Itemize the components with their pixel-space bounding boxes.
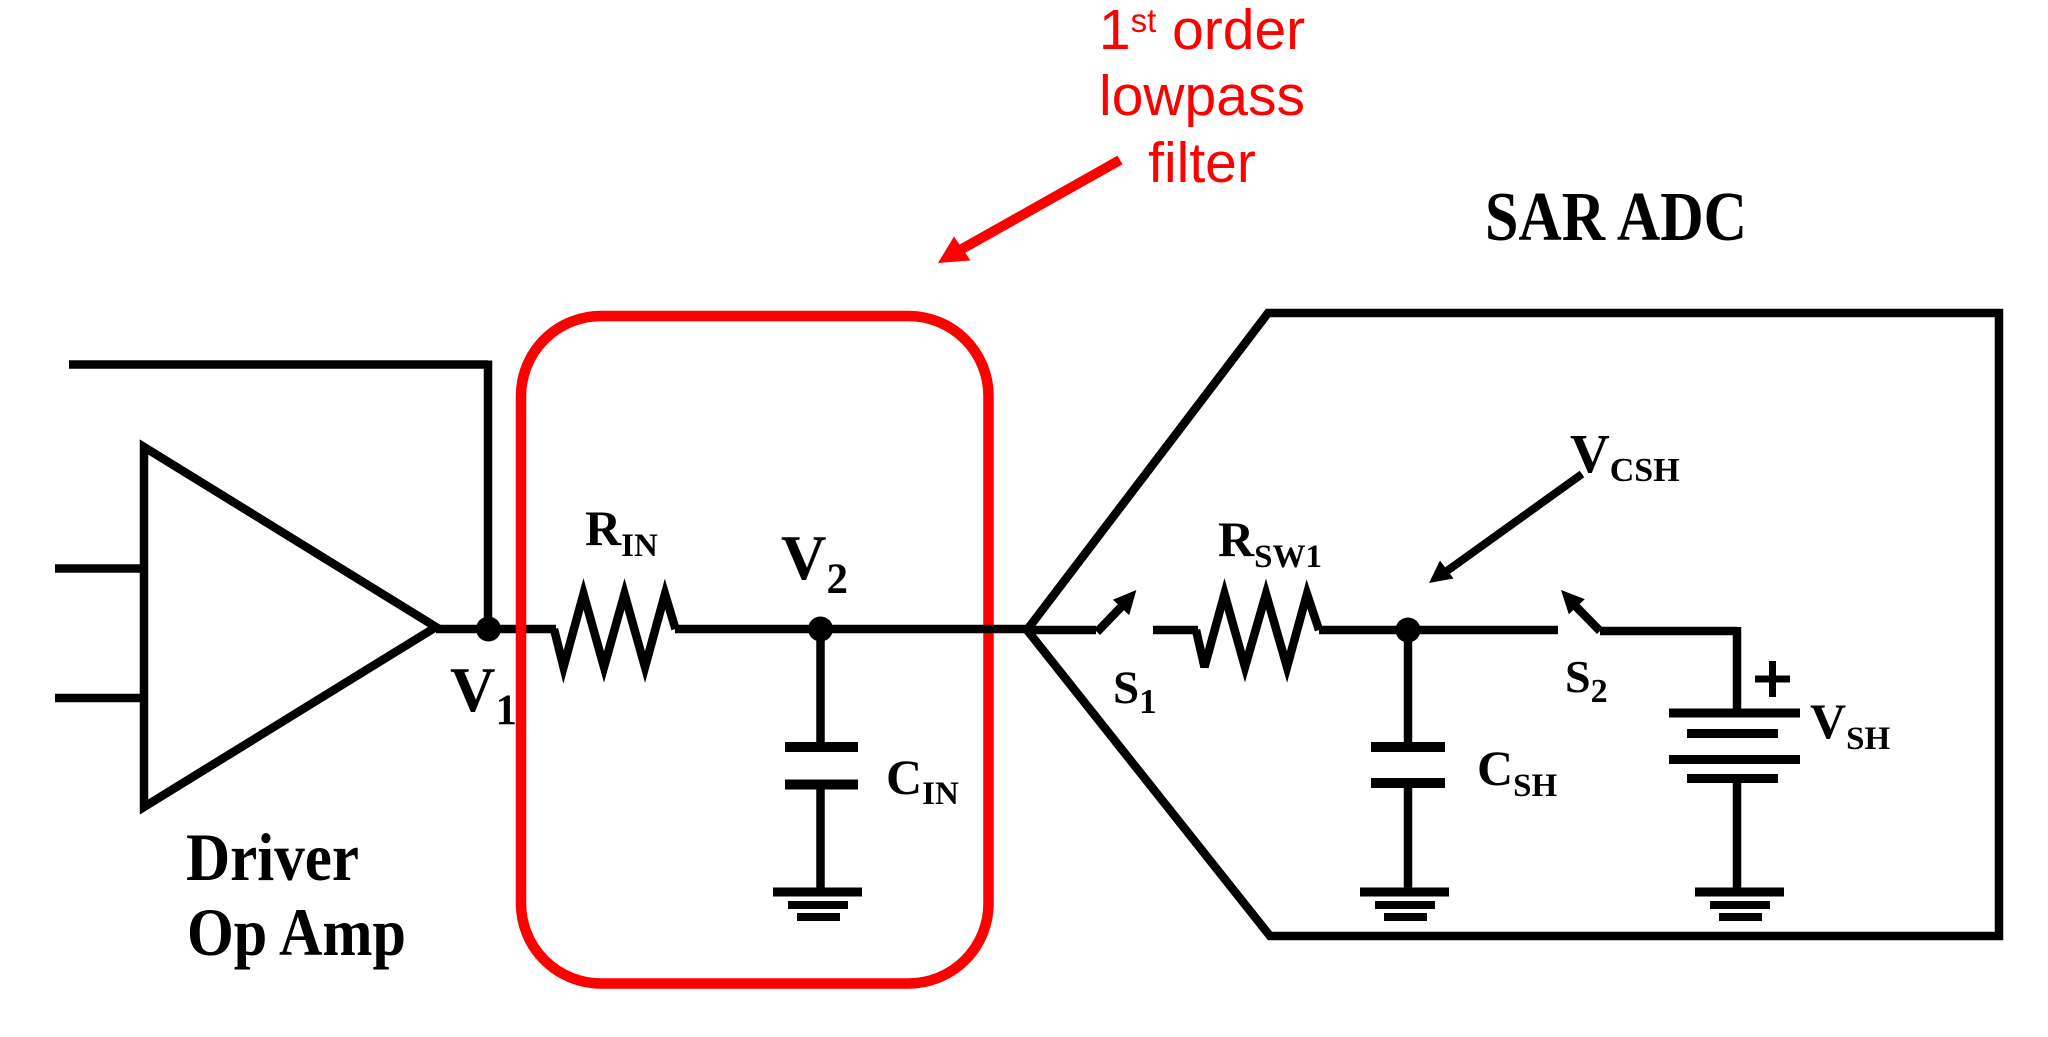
wire op-amp output to resistor RIN (436, 625, 556, 634)
wire S1 to RSW1 (1153, 626, 1198, 635)
capacitor CIN stem (top) (816, 629, 825, 743)
op-amp U1 input stub wire (upper) (55, 564, 144, 573)
red annotation arrow (958, 160, 1121, 252)
battery VSH plus sign (1755, 661, 1790, 697)
svg-text:lowpass: lowpass (1099, 64, 1305, 128)
wire RSW1 to switch S2 (1319, 626, 1558, 635)
battery VSH top lead (1733, 627, 1742, 712)
ground under CIN (773, 888, 862, 897)
wire vertex to switch S1 (1027, 626, 1096, 635)
capacitor CSH plates (1371, 747, 1445, 783)
capacitor CIN plates (785, 747, 858, 785)
capacitor CSH stem (top) (1404, 630, 1413, 744)
resistor RIN zigzag (554, 594, 676, 667)
svg-text:Driver: Driver (186, 819, 359, 895)
resistor RSW1 zigzag (1196, 594, 1319, 667)
svg-text:SAR ADC: SAR ADC (1485, 179, 1747, 256)
red rounded box (lowpass filter) (521, 316, 989, 984)
svg-text:1st order: 1st order (1099, 0, 1305, 62)
svg-text:filter: filter (1148, 131, 1256, 195)
arrow VCSH to node (1446, 474, 1583, 572)
capacitor CSH stem (bottom) (1404, 788, 1413, 892)
wire S2 to battery VSH (1600, 627, 1737, 636)
switch S1 blade (1097, 605, 1124, 633)
capacitor CIN stem (bottom) (816, 789, 825, 892)
svg-text:Op Amp: Op Amp (187, 894, 406, 970)
ground under battery VSH (1695, 888, 1784, 897)
wire RIN to SAR ADC vertex (675, 625, 1030, 634)
op-amp U1 feedback wire (69, 361, 488, 630)
SAR ADC outline polygon (1027, 313, 1999, 936)
node V2 junction dot (808, 617, 833, 642)
battery VSH bottom lead (1733, 780, 1742, 892)
battery VSH plates (1669, 709, 1800, 718)
ground under CSH (1360, 888, 1449, 897)
switch S2 blade (1575, 605, 1601, 631)
op-amp U1 input stub wire (lower) (55, 694, 144, 703)
node VCSH junction dot (1396, 618, 1421, 643)
op-amp U1 triangle (144, 447, 436, 807)
node V1 junction dot (476, 617, 501, 642)
